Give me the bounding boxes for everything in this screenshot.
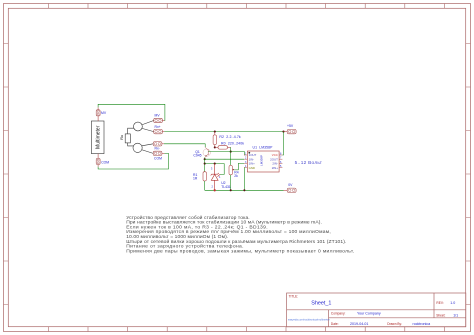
svg-text:TITLE:: TITLE: (289, 295, 299, 299)
svg-text:Rx-: Rx- (155, 147, 160, 151)
wire VCC drop (282, 132, 283, 155)
wire R0 right down to R4 (230, 147, 232, 165)
wire R4 wiper to 1IN+ (234, 163, 244, 170)
svg-text:Date:: Date: (331, 322, 339, 326)
pin names (249, 153, 279, 170)
svg-text:Sheet_1: Sheet_1 (311, 301, 331, 307)
svg-text:easyeda.com/rocktronica/multim: easyeda.com/rocktronica/multimeter (288, 318, 330, 322)
resistor R1 (193, 172, 206, 191)
junction dots on rail (214, 189, 216, 191)
connector +5V (284, 124, 297, 134)
svg-text:Drawn By:: Drawn By: (387, 322, 402, 326)
svg-text:Rx: Rx (119, 135, 124, 140)
svg-text:2k: 2k (234, 174, 238, 178)
wire R1 top vertical (204, 159, 206, 172)
junction emitter node (204, 158, 206, 160)
right pin stubs (279, 155, 282, 168)
potentiometer R4 (229, 165, 239, 190)
op-amp U1 LM358P (244, 146, 282, 173)
bottom rail (205, 189, 284, 191)
connector 0V (284, 183, 297, 193)
svg-text:Sheet:: Sheet: (436, 313, 445, 317)
connector Rx+ (right, horizontal) (154, 125, 165, 134)
connector COM (right, horizontal) (153, 151, 164, 160)
connector Rx- (right, horizontal) (153, 142, 164, 151)
svg-text:COM: COM (154, 156, 162, 160)
junction R1/TL431 wire (204, 163, 206, 165)
wire GND to rail (243, 168, 245, 191)
svg-text:C945: C945 (193, 153, 201, 157)
svg-text:1/1: 1/1 (453, 313, 458, 317)
svg-text:2IN+: 2IN+ (272, 166, 278, 170)
connector MV (right, horizontal) (154, 113, 165, 122)
resistor R2 (213, 132, 241, 148)
connector COM (left, vertical) (96, 154, 109, 167)
pin numbers (245, 153, 282, 169)
wire L2 emitter to 1IN- (205, 158, 244, 160)
svg-text:1R: 1R (193, 177, 198, 181)
svg-text:+5V: +5V (287, 124, 294, 128)
svg-text:MV: MV (101, 111, 107, 115)
wire Rx- to Q1 collector (164, 144, 205, 148)
svg-text:TL431: TL431 (221, 185, 231, 189)
clip top (circle) (134, 122, 143, 131)
svg-text:Rx+: Rx+ (155, 125, 161, 129)
svg-text:R2 2.2..4.7k: R2 2.2..4.7k (219, 135, 241, 139)
svg-text:rocktronica: rocktronica (413, 322, 431, 326)
multimeter box (91, 121, 104, 154)
clip lead wires (black diagonals) (142, 121, 154, 154)
svg-text:MV: MV (155, 113, 161, 117)
junction at +5V drop (282, 131, 284, 133)
svg-text:Multimeter: Multimeter (96, 125, 102, 149)
svg-text:COM: COM (101, 160, 109, 164)
wire bottom COM loop (98, 153, 168, 169)
junction node A bottom (214, 146, 216, 148)
svg-text:2019-04-01: 2019-04-01 (350, 322, 368, 326)
svg-text:Your Company: Your Company (357, 311, 381, 315)
frame zone ticks left/right (4, 44, 471, 305)
svg-text:REV:: REV: (436, 301, 443, 305)
connector MV (left, vertical) (96, 107, 107, 121)
wire L1 base to 1OUT (208, 152, 244, 155)
svg-text:GND: GND (249, 166, 255, 170)
junction node A top (214, 131, 216, 133)
svg-text:U1 LM358P: U1 LM358P (253, 146, 274, 150)
svg-text:R0 220..240k: R0 220..240k (221, 141, 244, 145)
svg-text:Применяя две пары проводов, за: Применяя две пары проводов, замыкая зажи… (126, 248, 354, 254)
left pin stubs (244, 155, 247, 168)
junction TL431 cathode (214, 163, 216, 165)
svg-text:Company:: Company: (331, 311, 346, 315)
svg-text:0V: 0V (288, 183, 293, 187)
svg-text:1.0: 1.0 (450, 301, 455, 305)
resistor Rx (black) (125, 128, 134, 146)
junction L1 x R0 (230, 151, 232, 153)
resistor R0 (215, 141, 244, 149)
transistor Q1 (203, 147, 210, 159)
svg-text:5..12 Вольт: 5..12 Вольт (295, 160, 323, 165)
clip bottom (circle) (133, 143, 142, 152)
wire top rail MV (98, 104, 165, 120)
wire Rx+ rail to +5V (164, 131, 283, 133)
svg-text:LM358P: LM358P (260, 155, 264, 166)
wire to TL431 cathode and ref loop (205, 164, 225, 175)
TL431 U2 (211, 164, 220, 191)
